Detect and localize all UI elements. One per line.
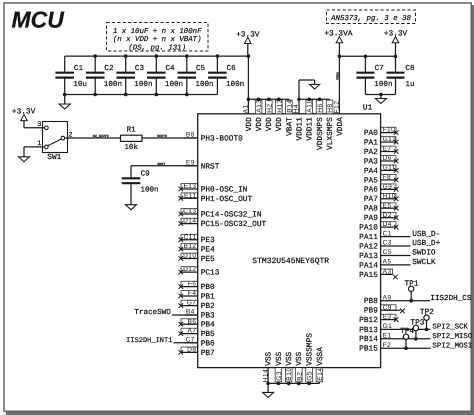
U1 pin E7 PA2 (right) — [364, 146, 399, 157]
svg-text:E7: E7 — [383, 146, 392, 153]
svg-text:E1: E1 — [383, 333, 392, 340]
svg-text:USB_D+: USB_D+ — [412, 239, 440, 248]
wire: +3.3V to SW1 pin 3 — [24, 127, 45, 129]
wire: C7/C8 ground link — [365, 94, 395, 96]
wire: NRST net from C9 to U1 — [131, 166, 198, 178]
U1 pin H4 VDD11 (top) — [293, 99, 304, 140]
U1 pin A9 PB8 (right) — [364, 294, 430, 306]
U1 pin A1 VDD (top) — [243, 99, 254, 131]
U1 pin B4 PB3 (left) — [184, 309, 216, 321]
test point TP3 — [410, 318, 424, 340]
svg-text:VSS: VSS — [285, 351, 294, 365]
wire: R1 to U1 PH3-BOOT0 (net BOOT0) — [142, 137, 198, 139]
junction dots VSS bus — [266, 382, 311, 386]
svg-text:C9: C9 — [383, 304, 392, 311]
svg-text:F4: F4 — [188, 290, 197, 297]
svg-text:100n: 100n — [104, 80, 122, 89]
junction dots on +3.3V rail — [93, 54, 250, 58]
U1 pin C9 PB9 (right) — [364, 304, 405, 315]
U1 pin G11 PA4 (right) — [364, 165, 399, 176]
svg-text:R1: R1 — [127, 127, 137, 135]
U1 pin A11 VDD11 (top) — [306, 99, 315, 140]
ground (SW1) — [19, 157, 30, 162]
svg-text:U1: U1 — [363, 103, 373, 112]
svg-text:PB3: PB3 — [201, 312, 215, 321]
svg-text:PB8: PB8 — [364, 297, 378, 306]
svg-text:C5: C5 — [196, 64, 206, 73]
svg-text:PA12: PA12 — [359, 242, 378, 251]
svg-text:PB7: PB7 — [201, 349, 215, 358]
svg-text:PC15-OSC32_OUT: PC15-OSC32_OUT — [201, 220, 267, 229]
svg-text:A5: A5 — [383, 259, 392, 266]
ground (C1-C6 rail) — [59, 95, 70, 110]
svg-text:H12: H12 — [276, 99, 283, 113]
U1 pin B12 PE4 (left) — [179, 243, 216, 254]
svg-text:100n: 100n — [134, 80, 152, 89]
U1 pin D10 PE5 (left) — [179, 253, 216, 264]
U1 pin D4 PA10 (right) — [359, 221, 398, 232]
svg-text:D10: D10 — [183, 253, 196, 260]
svg-text:E3: E3 — [383, 314, 392, 321]
svg-text:D2: D2 — [383, 212, 392, 219]
svg-text:100n: 100n — [165, 80, 183, 89]
svg-text:PB14: PB14 — [359, 335, 378, 344]
svg-text:VDD: VDD — [275, 117, 284, 131]
svg-text:C9: C9 — [141, 170, 151, 179]
U1 pin F2 PB15 (right) — [359, 342, 430, 354]
svg-text:PH0-OSC_IN: PH0-OSC_IN — [201, 186, 248, 195]
svg-text:PB12: PB12 — [359, 316, 378, 325]
svg-text:PB13: PB13 — [359, 326, 378, 335]
svg-text:B6: B6 — [188, 318, 197, 325]
svg-text:10k: 10k — [124, 143, 138, 152]
U1 pin D8 PB7 (left) — [179, 347, 216, 358]
svg-text:SPI2_SCK: SPI2_SCK — [432, 324, 468, 332]
svg-text:PA4: PA4 — [364, 167, 378, 176]
svg-text:PA11: PA11 — [359, 233, 378, 242]
junction dots SMPS bus — [297, 98, 321, 102]
svg-text:F6: F6 — [188, 281, 197, 288]
svg-text:PH1-OSC_OUT: PH1-OSC_OUT — [201, 195, 253, 204]
svg-text:C11: C11 — [184, 234, 197, 241]
U1 pin H6 VDDSMPS (top) — [316, 99, 325, 150]
svg-text:PB4: PB4 — [201, 321, 215, 330]
svg-text:NRST: NRST — [157, 162, 165, 166]
test point TP4 — [400, 327, 414, 350]
svg-text:NRST: NRST — [201, 162, 220, 171]
svg-text:100n: 100n — [374, 80, 392, 89]
svg-text:VDD11: VDD11 — [306, 117, 315, 141]
svg-text:PC14-OSC32_IN: PC14-OSC32_IN — [201, 211, 262, 220]
svg-text:PB6: PB6 — [201, 339, 215, 348]
ground (SMPS bus) — [310, 84, 320, 89]
svg-text:VSSSMPS: VSSSMPS — [306, 333, 315, 366]
U1 pin B14 VBAT (top) — [285, 99, 294, 136]
svg-text:B8: B8 — [186, 132, 195, 139]
U1 pin D12 PC13 (left) — [179, 266, 220, 277]
power +3.3V (analog rail) — [384, 29, 408, 56]
svg-text:G5: G5 — [307, 371, 314, 381]
svg-text:D12: D12 — [183, 266, 196, 273]
svg-text:PA8: PA8 — [364, 205, 378, 214]
capacitor C6 value 100n — [208, 56, 244, 94]
svg-text:STM32U545NEY6QTR: STM32U545NEY6QTR — [252, 257, 329, 266]
svg-text:PB15: PB15 — [359, 345, 378, 354]
svg-text:G9: G9 — [383, 183, 393, 190]
svg-text:VBAT: VBAT — [285, 117, 294, 136]
U1 pin D14 PC15-OSC32_OUT (left) — [179, 218, 267, 229]
svg-text:PA13: PA13 — [359, 252, 378, 261]
svg-text:VDDSMPS: VDDSMPS — [316, 117, 325, 150]
svg-text:F2: F2 — [383, 342, 392, 349]
svg-text:H10: H10 — [383, 193, 396, 200]
svg-text:PA14: PA14 — [359, 261, 378, 270]
svg-text:PA5: PA5 — [364, 176, 378, 185]
svg-text:MCU: MCU — [12, 6, 66, 32]
note: AN5373 reference — [327, 10, 416, 24]
U1 pin E5 PA8 (right) — [364, 202, 399, 213]
svg-text:PA7: PA7 — [364, 195, 378, 204]
wire: IIS2DH_INT1 to PB6 — [174, 342, 198, 344]
svg-text:PE3: PE3 — [201, 236, 215, 245]
svg-text:PA6: PA6 — [364, 186, 378, 195]
svg-text:(DS, pg. 131): (DS, pg. 131) — [128, 43, 186, 52]
svg-text:SWDIO: SWDIO — [412, 249, 436, 258]
svg-text:SPI2_MISO: SPI2_MISO — [432, 333, 472, 341]
svg-text:VDD: VDD — [255, 117, 264, 131]
switch SW1 (SPDT) — [37, 121, 73, 162]
svg-text:H2: H2 — [266, 103, 273, 112]
U1 pin E14 VSSA (bottom) — [316, 347, 325, 384]
U1 pin E11 PH1-OSC_OUT (left) — [179, 192, 253, 203]
svg-text:VSSA: VSSA — [316, 347, 325, 366]
svg-text:PB9: PB9 — [364, 307, 378, 316]
U1 pin H2 VDD (top) — [265, 99, 274, 131]
svg-text:C4: C4 — [166, 64, 176, 73]
U1 pin A3 PA15 (right) — [359, 269, 398, 280]
svg-text:3: 3 — [37, 121, 41, 129]
U1 pin G7 PB2 (left) — [179, 300, 216, 311]
op-amp U1 STM32U545NEY6QTR (MCU body) — [198, 103, 381, 367]
svg-text:PB2: PB2 — [201, 302, 215, 311]
svg-text:E13: E13 — [183, 183, 196, 190]
U1 pin H14 VSS (bottom) — [262, 351, 273, 383]
svg-text:100n: 100n — [140, 186, 158, 195]
svg-text:H14: H14 — [262, 369, 269, 383]
U1 pin A13 VDD (top) — [255, 99, 264, 131]
power +3.3V (decoupling rail) — [236, 30, 260, 56]
svg-text:C6: C6 — [227, 64, 237, 73]
wire: VSS bus — [268, 382, 319, 384]
U1 pin B2 VSS (bottom) — [295, 351, 304, 383]
U1 pin G1 PB13 (right) — [359, 323, 430, 335]
U1 pin D6 PA3 (right) — [364, 155, 399, 166]
svg-text:PB5: PB5 — [201, 330, 215, 339]
capacitor C8 value 1u — [387, 56, 415, 94]
svg-text:B12: B12 — [183, 243, 196, 250]
svg-text:C8: C8 — [405, 64, 415, 73]
svg-text:VDDA: VDDA — [336, 72, 340, 80]
svg-text:SWCLK: SWCLK — [412, 258, 436, 267]
wire: SW1 pin 2 to R1, net SW_BOOT0 — [65, 137, 121, 139]
svg-text:PA9: PA9 — [364, 214, 378, 223]
svg-text:C3: C3 — [383, 240, 392, 247]
svg-text:G3: G3 — [276, 371, 283, 381]
svg-text:C7: C7 — [375, 64, 384, 73]
wire: +3.3V rail over C1-C6 — [65, 55, 249, 57]
svg-text:F10: F10 — [383, 127, 396, 134]
svg-text:E5: E5 — [383, 202, 392, 209]
svg-text:PA15: PA15 — [359, 271, 378, 280]
wire: VDD11/SMPS pin bus H4-H8 — [299, 98, 330, 100]
svg-text:D6: D6 — [383, 155, 392, 162]
svg-text:VSS: VSS — [295, 351, 304, 365]
svg-text:PB1: PB1 — [201, 293, 215, 302]
U1 pin B8 PH3-BOOT0 (left) — [184, 132, 244, 144]
svg-text:TraceSWO: TraceSWO — [134, 308, 171, 317]
svg-text:PH3-BOOT0: PH3-BOOT0 — [201, 135, 243, 144]
U1 pin H10 PA7 (right) — [364, 193, 399, 204]
junction dots on +3.3VA rail — [338, 55, 398, 59]
svg-text:PE4: PE4 — [201, 246, 215, 255]
svg-text:(n x VDD + n x VBAT): (n x VDD + n x VBAT) — [113, 35, 202, 44]
U1 pin F4 PB1 (left) — [179, 290, 216, 301]
svg-text:D8: D8 — [187, 347, 196, 354]
svg-text:C1: C1 — [74, 64, 84, 73]
svg-text:PA1: PA1 — [364, 139, 378, 148]
U1 pin C13 PC14-OSC32_IN (left) — [179, 208, 262, 219]
U1 pin G3 VSS (bottom) — [275, 351, 284, 383]
U1 pin E13 PH0-OSC_IN (left) — [179, 183, 248, 194]
resistor R1 value 10k — [121, 127, 143, 152]
svg-text:PA2: PA2 — [364, 148, 378, 157]
U1 pin E3 PB12 (right) — [359, 314, 398, 325]
svg-text:100n: 100n — [226, 80, 244, 89]
U1 pin G9 PA6 (right) — [364, 183, 399, 194]
ground (C7/C8) — [375, 95, 386, 104]
U1 pin B10 VSS (bottom) — [285, 351, 294, 383]
svg-text:A11: A11 — [307, 100, 314, 113]
U1 pin H8 VLXSMPS (top) — [326, 99, 335, 150]
svg-text:VDD: VDD — [265, 117, 274, 131]
U1 pin E9 NRST (left) — [184, 160, 220, 172]
svg-text:A3: A3 — [383, 269, 392, 276]
svg-text:G11: G11 — [383, 165, 396, 172]
svg-text:D4: D4 — [383, 221, 392, 228]
U1 pin F8 PA5 (right) — [364, 174, 399, 185]
wire: SMPS bus up and over to ground — [299, 80, 315, 99]
svg-text:PA10: PA10 — [359, 224, 378, 233]
ground (C9) — [126, 205, 137, 210]
svg-text:SW1: SW1 — [47, 153, 61, 162]
capacitor C2 value 100n — [86, 56, 122, 94]
svg-text:H4: H4 — [293, 104, 300, 113]
wire: rail drop to U1 VDD pins — [247, 56, 249, 99]
capacitor C9 value 100n — [122, 170, 159, 205]
svg-text:B10: B10 — [286, 367, 293, 380]
svg-text:H6: H6 — [317, 103, 324, 112]
svg-text:VDDA: VDDA — [336, 117, 345, 136]
svg-text:A13: A13 — [256, 99, 263, 112]
svg-text:10u: 10u — [73, 80, 87, 89]
capacitor C5 value 100n — [178, 56, 214, 94]
U1 pin A5 PA14 (right) — [359, 259, 410, 271]
svg-text:E11: E11 — [184, 192, 196, 199]
U1 pin E1 PB14 (right) — [359, 333, 430, 345]
svg-text:G13: G13 — [383, 136, 397, 143]
svg-text:100n: 100n — [195, 80, 213, 89]
svg-text:B2: B2 — [296, 372, 303, 381]
U1 pin C1 PA11 (right) — [359, 230, 410, 242]
svg-text:BOOT0: BOOT0 — [157, 134, 167, 138]
svg-text:PA3: PA3 — [364, 157, 378, 166]
svg-text:F8: F8 — [383, 174, 392, 181]
svg-text:G1: G1 — [383, 323, 393, 330]
svg-text:IIS2DH_INT1: IIS2DH_INT1 — [126, 337, 172, 345]
svg-text:1u: 1u — [405, 81, 414, 89]
U1 pin G5 VSSSMPS (bottom) — [306, 333, 315, 384]
svg-text:PC13: PC13 — [201, 269, 220, 278]
svg-text:PE5: PE5 — [201, 255, 215, 264]
svg-text:C5: C5 — [383, 249, 392, 256]
wire: VDDA feed down to U1 F12 — [338, 56, 340, 99]
svg-text:A1: A1 — [243, 104, 250, 113]
U1 pin F10 PA0 (right) — [364, 127, 399, 138]
svg-text:C2: C2 — [104, 64, 114, 73]
svg-text:C1: C1 — [383, 230, 392, 237]
U1 pin C11 PE3 (left) — [179, 234, 216, 245]
svg-text:C3: C3 — [135, 64, 145, 73]
capacitor C4 value 100n — [147, 56, 183, 94]
svg-text:E14: E14 — [317, 367, 324, 380]
U1 pin B6 PB4 (left) — [179, 318, 216, 329]
capacitor C3 value 100n — [116, 56, 152, 94]
svg-text:SPI2_MOSI: SPI2_MOSI — [432, 342, 472, 350]
svg-text:+3.3VA: +3.3VA — [324, 29, 352, 38]
capacitor C1 value 10u — [55, 56, 87, 94]
U1 pin C7 PB6 (left) — [184, 337, 216, 349]
svg-text:1: 1 — [37, 140, 41, 148]
U1 pin F12 VDDA (top) — [334, 99, 345, 136]
svg-text:VSS: VSS — [275, 351, 284, 365]
wire: C1-C6 ground rail — [65, 94, 218, 96]
svg-text:A7: A7 — [188, 328, 197, 335]
svg-text:PB0: PB0 — [201, 283, 215, 292]
junction dot C7/C8 gnd — [379, 93, 383, 97]
wire: TraceSWO to PB3 — [172, 314, 198, 316]
svg-text:USB_D-: USB_D- — [412, 230, 440, 239]
power +3.3VA — [324, 29, 352, 56]
capacitor C7 value 100n — [356, 56, 392, 94]
ground (VSS bus) — [263, 383, 274, 397]
svg-text:AN5373, pg. 3 e 38: AN5373, pg. 3 e 38 — [330, 15, 411, 23]
U1 pin C5 PA13 (right) — [359, 249, 410, 261]
junction dots on ground rail — [63, 93, 189, 97]
power +3.3V (SW1) — [12, 107, 36, 128]
svg-text:D14: D14 — [183, 218, 196, 225]
svg-text:VDD11: VDD11 — [295, 117, 304, 141]
svg-text:VLXSMPS: VLXSMPS — [326, 117, 335, 150]
wire: SW1 pin 1 to ground — [24, 147, 45, 157]
svg-text:IIS2DH_CS: IIS2DH_CS — [430, 294, 471, 303]
wire: +3.3VA rail — [339, 55, 395, 57]
svg-text:VDD: VDD — [245, 117, 254, 131]
U1 pin A7 PB5 (left) — [179, 328, 216, 339]
test point TP1 — [405, 279, 419, 302]
svg-text:G7: G7 — [187, 300, 197, 307]
wire: VDD pin bus A1-B14 — [248, 98, 289, 100]
U1 pin H12 VDD (top) — [275, 99, 284, 131]
svg-text:PA0: PA0 — [364, 129, 378, 138]
svg-text:C13: C13 — [183, 208, 196, 215]
U1 pin D2 PA9 (right) — [364, 212, 399, 223]
svg-text:E9: E9 — [186, 160, 195, 167]
svg-text:A9: A9 — [383, 294, 392, 301]
svg-text:SW_BOOT0: SW_BOOT0 — [93, 134, 109, 138]
U1 pin C3 PA12 (right) — [359, 240, 410, 252]
svg-text:1 x 10uF + n x 100nF: 1 x 10uF + n x 100nF — [113, 28, 202, 36]
test point TP2 — [420, 308, 434, 331]
svg-text:VSS: VSS — [265, 351, 274, 365]
svg-text:F12: F12 — [334, 101, 341, 114]
note: decoupling capacitor rule — [107, 23, 209, 53]
U1 pin F6 PB0 (left) — [179, 281, 216, 292]
junction dots VDD bus — [247, 98, 281, 102]
U1 pin G13 PA1 (right) — [364, 136, 399, 147]
